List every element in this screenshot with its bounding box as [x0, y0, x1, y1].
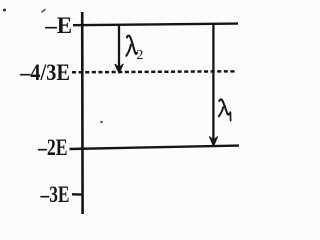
- svg-text:2: 2: [136, 48, 143, 63]
- energy axis (vertical line): [81, 12, 84, 214]
- transition arrow lambda2 head: [115, 64, 123, 73]
- level tick -3E: [72, 193, 83, 196]
- svg-text:–E: –E: [44, 13, 72, 38]
- svg-text:–2E: –2E: [37, 135, 67, 160]
- svg-text:–4/3E: –4/3E: [19, 60, 70, 85]
- transition arrow lambda1 head: [210, 137, 218, 146]
- level line -4/3E (dashed): [72, 71, 237, 72]
- transition arrow lambda1 shaft (from -E to -2E): [212, 24, 214, 140]
- label lambda1 subscript 1: [229, 112, 231, 121]
- label lambda2 glyph: [126, 36, 137, 56]
- scan speck dot top-left: [3, 9, 6, 12]
- label lambda1 glyph: [219, 99, 229, 116]
- level line -E: [73, 24, 238, 26]
- level line -2E: [70, 146, 240, 149]
- scan mark near top: [42, 9, 46, 12]
- scan speck dot mid: [100, 121, 102, 123]
- svg-text:–3E: –3E: [40, 182, 70, 207]
- transition arrow lambda2 shaft (from -E to -4/3E): [118, 26, 120, 68]
